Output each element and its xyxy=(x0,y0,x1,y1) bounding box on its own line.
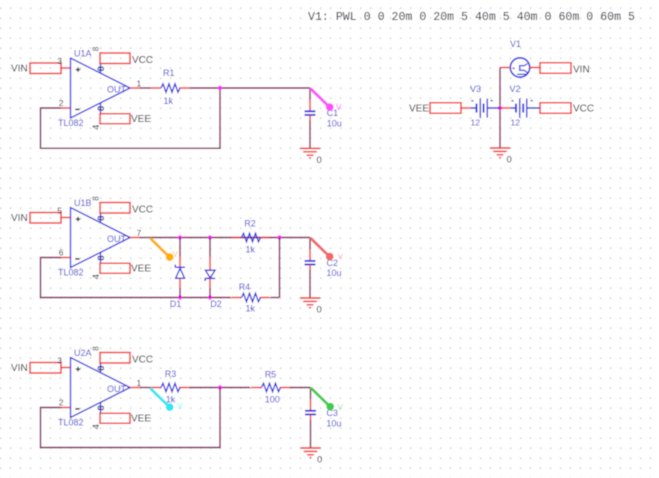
svg-text:V1: V1 xyxy=(510,39,521,49)
svg-text:R3: R3 xyxy=(165,369,177,379)
svg-text:VEE: VEE xyxy=(409,103,429,114)
svg-text:3: 3 xyxy=(57,356,62,366)
svg-text:4: 4 xyxy=(91,274,102,279)
svg-text:10u: 10u xyxy=(327,268,342,278)
svg-text:8: 8 xyxy=(91,196,100,201)
svg-text:V: V xyxy=(336,103,342,112)
svg-text:10u: 10u xyxy=(326,418,341,428)
svg-text:10u: 10u xyxy=(327,118,342,128)
svg-text:4: 4 xyxy=(91,125,102,130)
svg-text:8: 8 xyxy=(96,216,106,221)
svg-text:8: 8 xyxy=(96,405,106,410)
svg-text:0: 0 xyxy=(317,155,322,166)
svg-text:2: 2 xyxy=(59,398,64,408)
svg-text:8: 8 xyxy=(96,66,106,71)
svg-text:1: 1 xyxy=(137,378,142,388)
svg-text:TL082: TL082 xyxy=(58,118,84,128)
svg-text:3: 3 xyxy=(57,56,62,66)
svg-text:U1A: U1A xyxy=(74,49,92,59)
svg-text:U2A: U2A xyxy=(74,348,92,358)
svg-text:D2: D2 xyxy=(210,299,222,309)
svg-text:V: V xyxy=(173,250,179,259)
svg-text:VCC: VCC xyxy=(132,355,153,366)
svg-text:VCC: VCC xyxy=(132,205,153,216)
svg-text:R5: R5 xyxy=(265,369,277,379)
svg-text:12: 12 xyxy=(511,118,521,128)
svg-text:VIN: VIN xyxy=(11,363,28,374)
svg-text:VCC: VCC xyxy=(132,55,153,66)
svg-text:D1: D1 xyxy=(170,299,182,309)
svg-text:1k: 1k xyxy=(246,245,256,255)
svg-text:V3: V3 xyxy=(470,84,481,94)
svg-text:VIN: VIN xyxy=(11,213,28,224)
svg-text:8: 8 xyxy=(96,255,106,260)
svg-text:6: 6 xyxy=(59,248,64,258)
svg-text:4: 4 xyxy=(91,424,102,429)
svg-text:8: 8 xyxy=(96,366,106,371)
svg-text:1k: 1k xyxy=(246,304,256,314)
svg-text:U1B: U1B xyxy=(74,198,92,208)
svg-text:100: 100 xyxy=(265,394,280,404)
svg-text:1k: 1k xyxy=(166,394,176,404)
svg-text:VCC: VCC xyxy=(573,104,594,115)
svg-text:V1: PWL 0 0 20m 0 20m 5 40m 5: V1: PWL 0 0 20m 0 20m 5 40m 5 40m 0 60m … xyxy=(308,11,635,24)
svg-text:OUT: OUT xyxy=(107,84,127,94)
svg-text:VEE: VEE xyxy=(131,414,151,425)
svg-text:5: 5 xyxy=(57,206,62,216)
svg-text:R2: R2 xyxy=(244,218,256,228)
svg-text:V2: V2 xyxy=(510,84,521,94)
svg-text:7: 7 xyxy=(137,228,142,238)
svg-text:8: 8 xyxy=(91,46,100,51)
svg-text:8: 8 xyxy=(91,346,100,351)
svg-text:V: V xyxy=(338,403,344,412)
svg-text:VEE: VEE xyxy=(131,264,151,275)
svg-text:VIN: VIN xyxy=(573,64,590,75)
svg-text:0: 0 xyxy=(507,155,512,166)
svg-text:1: 1 xyxy=(137,79,142,89)
svg-text:TL082: TL082 xyxy=(58,268,84,278)
svg-text:OUT: OUT xyxy=(107,234,127,244)
svg-text:V: V xyxy=(177,402,183,411)
svg-text:12: 12 xyxy=(471,118,481,128)
svg-text:1k: 1k xyxy=(164,96,174,106)
svg-text:0: 0 xyxy=(317,455,322,466)
svg-text:R4: R4 xyxy=(239,282,251,292)
svg-text:TL082: TL082 xyxy=(58,418,84,428)
svg-text:V: V xyxy=(338,254,343,261)
svg-text:8: 8 xyxy=(96,106,106,111)
svg-text:2: 2 xyxy=(59,98,64,108)
svg-text:VEE: VEE xyxy=(131,114,151,125)
svg-text:R1: R1 xyxy=(163,68,175,78)
svg-text:0: 0 xyxy=(317,305,322,316)
svg-text:VIN: VIN xyxy=(11,64,28,75)
svg-text:OUT: OUT xyxy=(107,384,127,394)
